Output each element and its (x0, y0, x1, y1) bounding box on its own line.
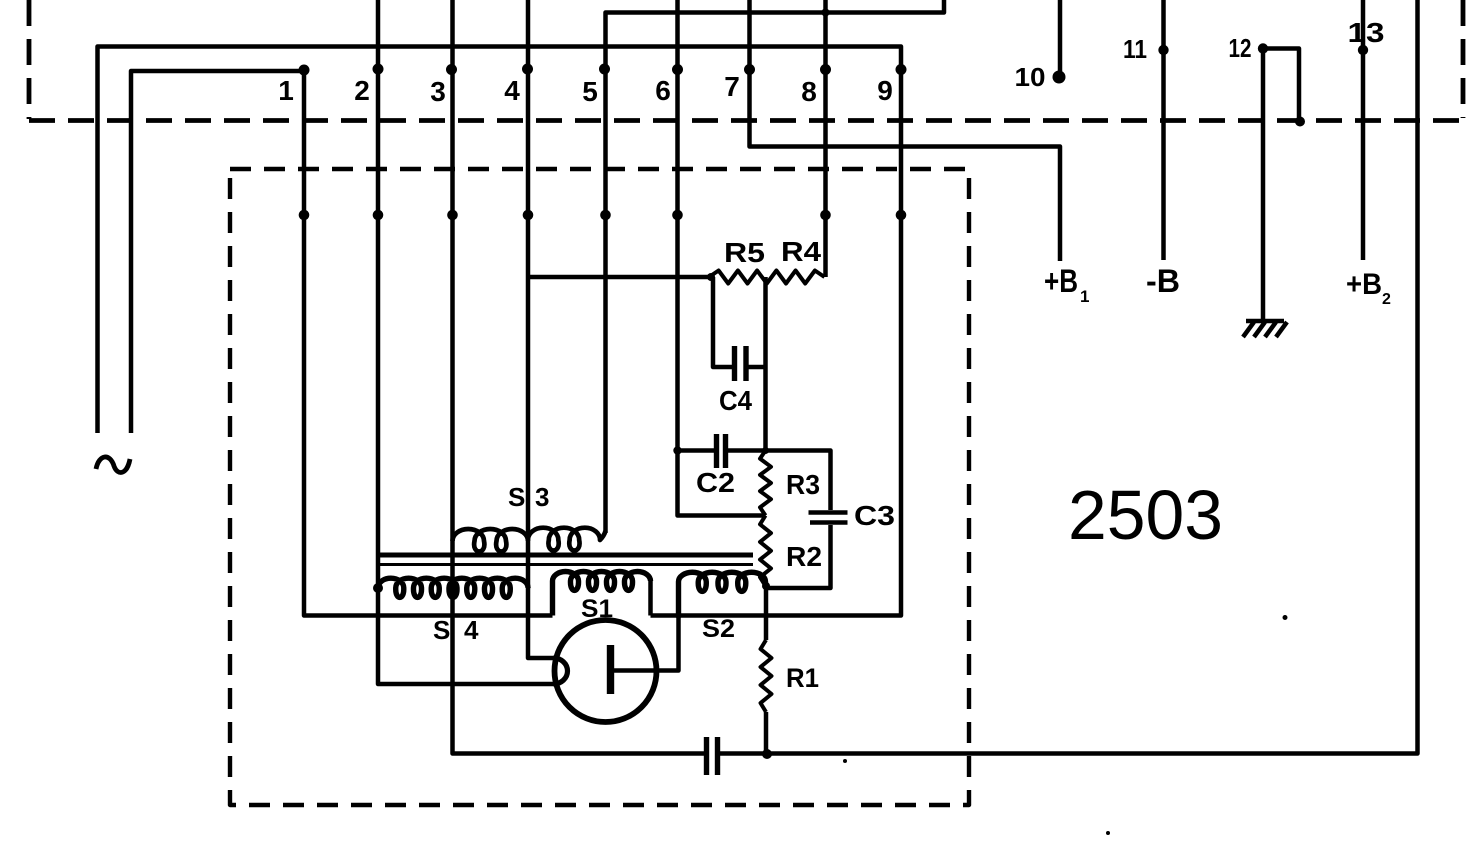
winding S4 (378, 578, 528, 597)
junction dot terminal 8 top link (822, 9, 830, 17)
svg-text:7: 7 (724, 71, 740, 102)
junction dot baseline S2 bracket (675, 612, 681, 618)
svg-text:3: 3 (535, 482, 549, 512)
terminal 4 junction dot (522, 64, 533, 75)
resistor R3 zigzag (760, 451, 771, 516)
svg-text:1: 1 (1080, 287, 1089, 306)
capacitor C3 top plate (809, 510, 848, 515)
terminal 11 dot (1158, 45, 1168, 55)
svg-text:+B: +B (1346, 268, 1382, 301)
svg-text:5: 5 (582, 76, 598, 107)
wire terminal 10 stub (1058, 0, 1063, 72)
terminal 7 junction dot (744, 64, 755, 75)
capacitor C1 left plate (704, 737, 709, 775)
svg-text:C2: C2 (696, 467, 735, 498)
capacitor C4 left plate (732, 346, 737, 381)
capacitor C2 left lead (678, 448, 715, 453)
svg-text:S: S (433, 615, 450, 645)
svg-text:S1: S1 (581, 595, 613, 623)
svg-text:8: 8 (801, 76, 817, 107)
terminal 2 junction dot (373, 64, 384, 75)
capacitor C3 bottom plate (810, 520, 848, 525)
junction dot R1 bottom on rail (762, 749, 772, 759)
terminal 3 junction dot (446, 64, 457, 75)
junction dot S4 left end (373, 583, 383, 593)
resistor R1 zigzag (761, 640, 772, 712)
outer chassis dashed boundary bottom edge (29, 118, 1463, 123)
terminal 5 junction dot (599, 64, 610, 75)
wire C3 top branch (766, 451, 831, 511)
shield entry dot (896, 210, 907, 221)
capacitor C2 right lead (728, 448, 766, 453)
terminal 10 dot (1053, 71, 1066, 84)
terminal 8 junction dot (820, 64, 831, 75)
shield entry dot (373, 210, 384, 221)
wire C4 right lead (749, 365, 766, 370)
svg-text:R4: R4 (781, 236, 821, 267)
terminal 9 junction dot (896, 64, 907, 75)
tube V1 envelope (555, 620, 657, 722)
svg-text:C3: C3 (854, 500, 895, 531)
winding S1 with end brackets (553, 572, 651, 616)
svg-text:2: 2 (1382, 291, 1391, 308)
wire terminal 12 chassis jog (1263, 49, 1299, 122)
scan speck 2 (1106, 831, 1110, 835)
svg-text:-B: -B (1146, 263, 1180, 299)
terminal 12 dot (1258, 43, 1268, 53)
resistor R1 lead bottom (764, 712, 769, 754)
shield entry dot (523, 210, 534, 221)
wire terminal 6 column and C2 branch left side (678, 0, 766, 516)
svg-text:R3: R3 (786, 469, 820, 500)
svg-text:10: 10 (1015, 62, 1046, 92)
tube anode lead to S2 bracket (613, 616, 679, 671)
wire drop R5 left to C4 (713, 277, 733, 367)
wire AC lead right with terminal 1 feed (131, 71, 304, 433)
svg-text:2: 2 (354, 75, 370, 106)
svg-text:+B: +B (1044, 263, 1078, 299)
wire terminal 12 column to ground (1261, 49, 1266, 323)
terminal 13 dot (1358, 45, 1368, 55)
wire terminal 8 column (823, 0, 828, 277)
shield entry dot (600, 210, 611, 221)
junction dot R5 left end (707, 273, 715, 281)
transformer core line upper (380, 553, 753, 558)
svg-text:9: 9 (877, 75, 893, 106)
winding S1 right bracket (648, 581, 653, 616)
outer chassis dashed boundary left edge (27, 0, 32, 119)
svg-text:R5: R5 (724, 237, 765, 268)
shield entry dot (672, 210, 683, 221)
wire terminal 3 column to bottom rail (453, 0, 705, 754)
wire terminal 2 column to S4 and filament bottom (378, 0, 554, 684)
winding S2 with bracket (678, 572, 766, 615)
svg-text:6: 6 (655, 75, 671, 106)
transformer core line lower (380, 563, 753, 566)
svg-text:S2: S2 (702, 615, 735, 643)
svg-text:4: 4 (504, 75, 520, 106)
wire terminal 13 column to +B2 (1361, 0, 1366, 260)
terminal 1 junction dot (299, 65, 310, 76)
svg-text:3: 3 (430, 76, 446, 107)
scan speck 1 (1283, 615, 1288, 620)
ground symbol (1246, 319, 1284, 324)
svg-text:13: 13 (1348, 17, 1385, 48)
svg-text:S: S (508, 482, 525, 512)
svg-text:R2: R2 (786, 541, 822, 572)
scan speck 3 (843, 759, 847, 763)
shield entry dot (820, 210, 831, 221)
capacitor C4 right plate (743, 346, 748, 381)
wire terminal 1 column to baseline (304, 70, 553, 616)
resistor R1 lead top (764, 586, 769, 640)
wire H5 from terminal 4 to R5 (528, 275, 709, 280)
svg-text:2503: 2503 (1068, 476, 1223, 554)
wire right-hand return and bottom rail right segment (720, 0, 1418, 754)
shield entry dot (447, 210, 458, 221)
wire AC lead left (98, 47, 902, 616)
tube anode bar (607, 645, 614, 694)
terminal 6 junction dot (672, 64, 683, 75)
svg-text:12: 12 (1229, 33, 1252, 63)
capacitor C2 left plate (714, 434, 719, 468)
tube filament arc (554, 658, 568, 684)
wire terminal 5 column with top link (606, 0, 945, 533)
shield entry dot (299, 210, 310, 221)
inner shield dashed box (230, 169, 969, 805)
wire terminal 11 column to -B (1161, 0, 1166, 260)
svg-text:C4: C4 (719, 385, 752, 416)
wire terminal 7 column to +B1 lead (750, 0, 1061, 261)
capacitor C1 right plate (715, 737, 720, 775)
svg-text:4: 4 (464, 615, 479, 645)
junction dot C2 right (762, 447, 769, 454)
junction dot C2 left (673, 446, 681, 454)
svg-text:11: 11 (1123, 34, 1147, 64)
wire terminal 4 column to filament top (528, 0, 554, 658)
resistor R5 and R4 zigzag (709, 271, 825, 284)
AC source symbol (96, 457, 130, 473)
capacitor C2 right plate (723, 434, 728, 468)
resistor R2 zigzag (760, 516, 771, 587)
wire C3 bottom branch (766, 525, 831, 588)
junction dot R2 bottom (762, 582, 770, 590)
wire drop R5/R4 junction (763, 277, 768, 451)
svg-text:R1: R1 (786, 663, 819, 693)
winding S3 (453, 528, 606, 552)
svg-text:1: 1 (278, 75, 294, 106)
chassis connection dot at terminal 12 jog (1295, 117, 1305, 127)
outer chassis dashed boundary right edge (1461, 0, 1466, 118)
